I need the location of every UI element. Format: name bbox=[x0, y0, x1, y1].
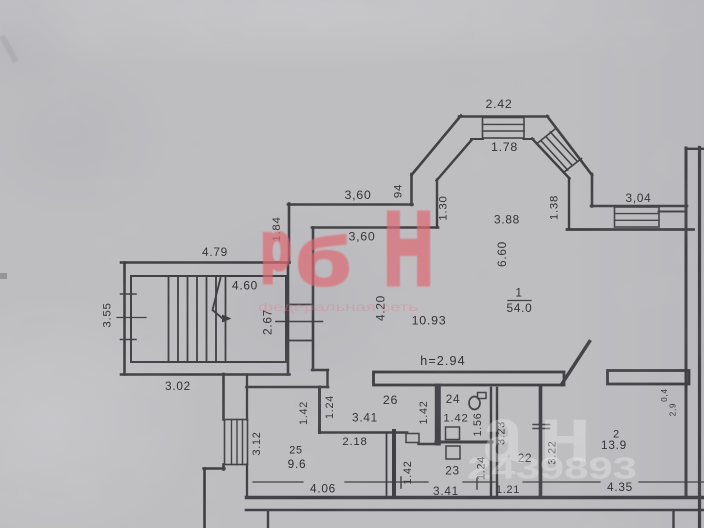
dimension ticks on room2 left wall bbox=[533, 425, 550, 429]
room 25 right wall line 1 bbox=[386, 434, 388, 495]
bay top outer wall bbox=[459, 115, 548, 118]
door leaf rect D3 bbox=[446, 446, 460, 459]
bay top inner stub left bbox=[471, 138, 483, 140]
corridor wall x313 bbox=[312, 228, 315, 371]
rooms bottom wall bbox=[247, 496, 704, 499]
WC right wall line 2 bbox=[496, 388, 498, 497]
WC bottom wall bbox=[436, 441, 492, 444]
outer wall top-right (3.04) bbox=[591, 205, 687, 208]
dimension line for 2.67 bbox=[276, 321, 323, 323]
bottom stub vertical x673.5 bbox=[672, 511, 674, 528]
stair treads bbox=[169, 276, 226, 362]
door leaf rect D2 bbox=[446, 427, 460, 440]
lower-left window glazing lines bbox=[232, 420, 243, 465]
bottom dimension ticks bbox=[401, 477, 477, 489]
staircase outer bottom wall bbox=[121, 373, 290, 376]
inner wall x247 lower bbox=[246, 465, 248, 498]
scan crease mark top-left edge bbox=[2, 36, 16, 62]
paper dark cloud top-left-corner bbox=[0, 0, 85, 105]
right edge wall vertical bbox=[698, 148, 701, 528]
outer wall top-left (3.60 / 94) bbox=[288, 203, 413, 206]
inner wall x247 upper bbox=[246, 375, 248, 420]
underline of room 1 label bbox=[508, 300, 531, 302]
lower-left outer wall below window bbox=[222, 465, 225, 470]
bay right diagonal window glazing lines bbox=[541, 132, 577, 170]
thick partition wall right segment bbox=[608, 371, 690, 385]
bay top window bbox=[483, 118, 525, 139]
paper dark cloud upper-left bbox=[0, 45, 180, 225]
outer wall x204 down bbox=[203, 469, 206, 528]
bay right inner diagonal bbox=[532, 139, 570, 179]
paper light blob mid-left lower bbox=[0, 290, 205, 528]
room 2 left wall bbox=[539, 388, 543, 498]
outer wall inner edge right of window bbox=[659, 211, 686, 213]
bottom dimension line segments bbox=[253, 481, 704, 483]
bottom outer wall bbox=[246, 509, 704, 512]
open door leaf diagonal bbox=[562, 342, 590, 385]
room 25 top wall bbox=[247, 386, 329, 389]
bay right outer diagonal bbox=[547, 116, 592, 175]
outer wall jog left bbox=[204, 467, 225, 469]
bay right diagonal window jambs bbox=[537, 130, 582, 173]
paper dark cloud left-middle bbox=[175, 200, 415, 400]
scan speck left edge bbox=[0, 273, 7, 279]
hall wall B bbox=[419, 443, 438, 445]
paper dark right edge bbox=[560, 0, 704, 528]
door leaf rect D1 bbox=[406, 434, 419, 443]
paper light band top bbox=[0, 0, 704, 70]
right wall window glazing lines bbox=[615, 214, 660, 221]
wall 1.84 vertical bbox=[288, 204, 291, 263]
window sill line right section bbox=[567, 228, 694, 231]
bay left inner diagonal bbox=[437, 140, 473, 181]
stair direction arrow bbox=[213, 278, 223, 318]
hall wall A (over room 23) bbox=[320, 431, 408, 434]
stair arrow head bbox=[222, 315, 232, 323]
staircase right wall bbox=[287, 263, 290, 375]
bottom-left stub vertical bbox=[267, 511, 269, 528]
right apartment wall vertical bbox=[685, 148, 688, 497]
staircase outer left wall bbox=[123, 263, 126, 375]
staircase inner box bbox=[131, 276, 286, 362]
door jamb upper on x313 wall bbox=[289, 304, 312, 306]
corridor wall vertical x319.5 bbox=[318, 387, 321, 433]
right shaft top wall bbox=[686, 148, 704, 150]
room 25 right wall line 2 bbox=[392, 431, 396, 497]
WC toilet symbol bbox=[469, 397, 480, 410]
window on right wall (below 3.04) bbox=[615, 207, 660, 227]
stair left wall window jamb bottom bbox=[121, 339, 137, 341]
dimension line for 3.55 bbox=[117, 317, 146, 319]
jog wall horizontal at y370 bbox=[312, 369, 328, 371]
bay right inner vertical bbox=[568, 178, 570, 230]
WC right wall line 1 bbox=[490, 388, 492, 497]
window on lower-left wall (3.12) bbox=[225, 420, 248, 465]
jog wall vertical x327.5 bbox=[326, 370, 328, 387]
staircase outer top wall (4.79) bbox=[121, 261, 290, 264]
door jamb lower on x313 wall bbox=[289, 340, 312, 342]
bay left outer vertical bbox=[410, 174, 413, 205]
stair left wall window jamb top bbox=[121, 293, 137, 295]
bay top inner stub right bbox=[524, 138, 534, 140]
bay left inner vertical bbox=[436, 180, 438, 228]
bay right outer vertical bbox=[591, 174, 594, 207]
thick wall stub x437.8 bbox=[435, 387, 441, 443]
bay left outer diagonal bbox=[412, 116, 462, 176]
thick partition wall left segment (h=2.94) bbox=[374, 372, 565, 385]
lower-left outer wall upper part bbox=[222, 374, 225, 420]
bay top window glazing lines bbox=[483, 124, 525, 131]
inner wall left horizontal (3.60 lower) bbox=[312, 226, 438, 229]
